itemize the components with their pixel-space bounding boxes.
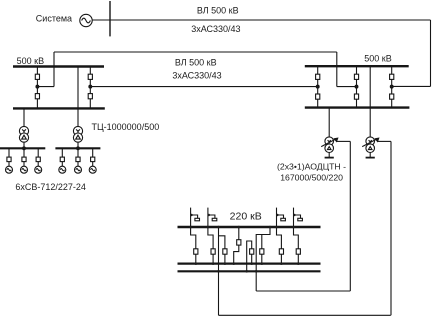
svg-text:220 кВ: 220 кВ [230, 211, 262, 223]
svg-text:ВЛ 500 кВ: ВЛ 500 кВ [175, 58, 217, 68]
svg-text:3хАС330/43: 3хАС330/43 [191, 24, 240, 34]
svg-text:167000/500/220: 167000/500/220 [280, 172, 343, 182]
svg-text:(2х3•1)АОДЦТН -: (2х3•1)АОДЦТН - [277, 162, 346, 172]
svg-text:3хАС330/43: 3хАС330/43 [172, 70, 221, 80]
svg-text:ВЛ 500 кВ: ВЛ 500 кВ [197, 6, 239, 16]
svg-text:ТЦ-1000000/500: ТЦ-1000000/500 [92, 122, 160, 132]
svg-text:6хСВ-712/227-24: 6хСВ-712/227-24 [15, 182, 86, 192]
svg-text:500 кВ: 500 кВ [17, 56, 44, 66]
svg-text:Система: Система [36, 14, 72, 24]
svg-text:500 кВ: 500 кВ [364, 54, 391, 64]
